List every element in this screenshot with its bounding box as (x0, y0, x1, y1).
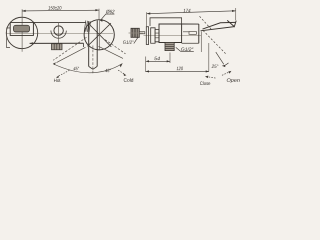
svg-text:G1/2″: G1/2″ (123, 40, 134, 46)
svg-text:Hot: Hot (54, 78, 61, 84)
svg-text:54: 54 (154, 56, 160, 62)
svg-text:150±20: 150±20 (48, 6, 62, 12)
svg-text:45°: 45° (73, 66, 79, 72)
svg-text:G1/2″: G1/2″ (181, 47, 194, 53)
svg-text:Cold: Cold (123, 78, 133, 84)
svg-text:Close: Close (200, 81, 211, 87)
svg-text:Open: Open (226, 78, 240, 84)
svg-text:120: 120 (176, 66, 183, 72)
svg-text:25°: 25° (211, 64, 219, 70)
svg-text:174: 174 (183, 8, 190, 14)
svg-text:45°: 45° (105, 68, 111, 74)
